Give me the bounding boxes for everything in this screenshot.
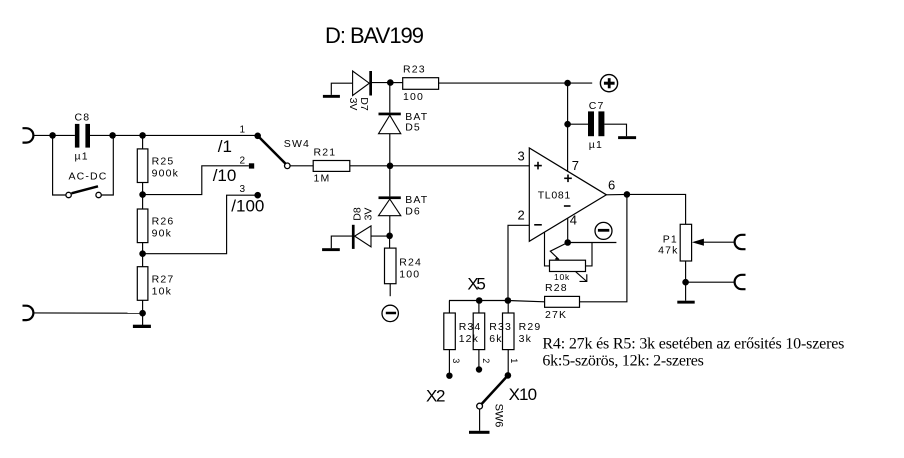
svg-text:3: 3 [518,148,525,163]
diode D6 BAT [379,166,429,236]
ground at D8 [322,236,352,251]
wire op-amp output pin 6 [606,193,627,195]
terminal pin 1 dot [254,133,261,140]
svg-text:100: 100 [399,269,420,281]
wire output node to P1 [627,194,686,224]
svg-text:10k: 10k [554,272,570,282]
svg-text:X5: X5 [467,274,486,293]
pin3 plus sign [534,165,542,167]
svg-text:100: 100 [403,91,424,103]
node junction D8/D6/R24 [386,233,393,240]
svg-text:4: 4 [570,212,577,227]
ground at D7 [323,83,353,98]
svg-text:R26: R26 [152,216,175,228]
wire P1 bottom to connector [686,281,735,283]
node junction R26/R27 [139,250,146,257]
svg-text:D5: D5 [405,122,421,134]
node junction at switch right [109,132,116,139]
wire X5 bus [449,300,508,302]
pin7 plus sign [564,177,572,179]
svg-text:R4: 27k és R5: 3k esetében az: R4: 27k és R5: 3k esetében az erősités 1… [542,336,844,353]
resistor R23 [390,64,438,103]
terminal pin 3 dot [254,192,261,199]
svg-text:90k: 90k [152,228,172,240]
node junction P1 bottom [682,279,689,286]
svg-text:1: 1 [240,125,246,136]
ground at P1 [677,282,694,303]
node junction pin4/offset [564,239,571,246]
node junction R27 bottom [139,310,146,317]
wire C7 node to cap [568,123,588,125]
potentiometer P1 [658,224,734,282]
svg-text:7: 7 [572,158,579,173]
svg-text:2: 2 [240,156,246,167]
wire node A to op-amp pin 3 [390,165,529,167]
node junction +supply [564,80,571,87]
svg-text:BAT: BAT [405,194,428,206]
svg-text:1: 1 [509,358,519,363]
svg-text:SW4: SW4 [284,138,310,150]
wire R28 to bus [508,301,545,302]
ground at C7 [618,136,636,139]
svg-text:µ1: µ1 [75,151,89,163]
svg-text:3k: 3k [519,333,532,345]
node junction output [624,191,631,198]
svg-text:AC-DC: AC-DC [69,171,108,183]
diode D5 BAT [379,83,429,166]
svg-text:D6: D6 [405,206,421,218]
svg-text:R25: R25 [152,156,175,168]
svg-text:2: 2 [518,208,525,223]
wire +supply node down to C7 node [567,83,569,124]
node junction C7 [564,121,571,128]
svg-text:12k: 12k [459,333,479,345]
resistor R34 [444,301,482,376]
resistor R27 [137,254,174,314]
trimmer adjust arrow [576,272,586,281]
wire R21 to node A [350,165,390,167]
wire SW4 to R21 [290,165,313,167]
svg-text:R21: R21 [314,147,337,159]
svg-text:47k: 47k [658,244,678,256]
node junction R25/R26 [139,191,146,198]
switch AC-DC bypass [53,135,114,197]
svg-text:R24: R24 [399,257,422,269]
wire to V+ symbol [568,82,593,84]
terminal dot under R34 [446,373,452,379]
resistor R21 [313,147,350,185]
V- supply symbol under R24 [382,305,398,321]
svg-text:R34: R34 [459,321,482,333]
svg-text:R29: R29 [519,321,542,333]
svg-text:27K: 27K [545,309,567,321]
node A junction (R21/D5/D6/pin3) [387,163,394,170]
op-amp U1 TL081 [518,148,616,241]
connector J-in-bottom [23,306,34,320]
pin4 minus sign [564,205,571,207]
svg-text:6k:5-szörös, 12k: 2-szeres: 6k:5-szörös, 12k: 2-szeres [542,353,704,370]
connector J-out-wiper [735,235,746,249]
connector J-out-bottom [735,275,746,289]
wire tap /10 [143,166,249,195]
connector J-in-top [23,128,34,142]
terminal dot under R33 [476,366,482,372]
svg-text:D83V: D83V [351,207,374,221]
capacitor C8 [75,112,91,163]
terminal dot / SW6 pole [505,372,512,379]
svg-text:µ1: µ1 [589,139,603,151]
svg-text:3: 3 [240,184,246,195]
svg-text:6k: 6k [489,333,502,345]
V+ supply symbol [600,75,617,92]
svg-text:6: 6 [608,178,615,193]
P1 wiper arrow [704,241,735,243]
resistor R33 [473,301,512,370]
node junction bus/R33 [476,297,483,304]
wire C8 to SW4 pin1 [90,134,258,136]
V- supply symbol near pin 4 [595,222,612,239]
svg-text:D73V: D73V [347,97,370,111]
svg-text:1M: 1M [314,173,331,185]
node junction at R25 top [139,132,146,139]
svg-text:900k: 900k [152,168,179,180]
switch SW4 [258,136,310,169]
svg-text:10k: 10k [152,285,172,297]
wire tap /100 [143,195,258,254]
wire pin 4 down [567,218,569,242]
node junction bus/pin2/R28 [505,297,512,304]
svg-text:/10: /10 [213,166,237,185]
svg-text:X10: X10 [509,385,537,404]
wire feedback from output node [580,194,627,301]
ground at SW6 [469,431,490,434]
resistor R29 [503,301,542,376]
terminal pin 2 square [249,163,254,168]
wire R23 to +supply node [439,82,568,84]
svg-text:C7: C7 [589,100,605,112]
svg-text:C8: C8 [75,112,91,124]
wire op-amp pin 2 [508,225,529,300]
pin2 minus sign [534,224,542,226]
svg-text:SW6: SW6 [493,404,505,428]
ground at R27 bottom [133,313,151,328]
diode D7 [347,71,390,111]
trimmer offset-null 10k [545,232,593,282]
svg-text:/100: /100 [231,196,264,215]
svg-text:2: 2 [481,358,491,363]
wire V- rail right [568,242,617,244]
svg-text:3: 3 [451,358,461,363]
resistor R26 [137,195,174,254]
wiper arrow [550,243,567,260]
capacitor C7 [588,100,605,151]
svg-text:/1: /1 [218,137,232,156]
wire C7 node down to op-amp pin 7 [567,124,569,171]
svg-text:D: BAV199: D: BAV199 [325,23,424,48]
svg-text:X2: X2 [426,387,446,406]
svg-text:R23: R23 [403,64,426,76]
wire input top to C8 [33,134,75,136]
node junction D7/R23 [387,79,394,86]
resistor R28 [545,282,580,321]
wire C7 to ground [604,124,626,136]
switch SW6 [477,375,508,430]
resistor R24 [385,236,423,296]
node junction at switch left [49,132,56,139]
svg-text:TL081: TL081 [538,190,571,202]
resistor R25 [137,135,179,194]
wire input bottom [33,312,142,314]
svg-text:R28: R28 [545,282,568,294]
diode D8 [351,207,389,249]
svg-text:R27: R27 [152,273,175,285]
svg-text:R33: R33 [489,321,512,333]
